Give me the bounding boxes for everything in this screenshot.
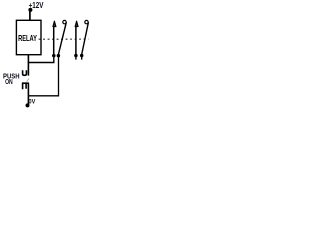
pole 1 fixed contact arrowhead <box>53 21 56 26</box>
wire relay coil bottom <box>27 55 29 63</box>
pole 2 fixed contact arrowhead <box>75 21 78 26</box>
relay contact pole 1 fixed terminal <box>53 27 55 55</box>
wire coil node to contact 1 common <box>28 56 53 63</box>
pole 2 moving arm <box>82 22 89 54</box>
push switch S1 lower contact <box>22 83 29 89</box>
wire node to push switch <box>27 63 29 76</box>
svg-text:RELAY: RELAY <box>18 33 37 43</box>
pole 2 terminal dot right <box>80 54 84 58</box>
svg-text:ON: ON <box>5 79 13 86</box>
push switch S1 upper contact <box>23 70 27 75</box>
mechanical linkage dashed line <box>39 38 89 40</box>
node +12V terminal dot <box>28 8 32 12</box>
wire push switch to 0V <box>27 83 29 105</box>
pole 2 terminal stub left <box>75 56 77 60</box>
pole 2 terminal stub right <box>81 56 83 60</box>
pole 2 terminal dot left <box>74 54 78 58</box>
pole 2 NO contact circle <box>85 20 88 23</box>
pole 1 NO contact circle <box>63 20 66 23</box>
node 0V terminal dot <box>26 103 30 107</box>
push switch plunger hint <box>27 79 29 82</box>
wire +12V to relay coil <box>29 10 31 21</box>
relay contact pole 2 fixed terminal <box>75 27 77 55</box>
pole 1 terminal dot right <box>57 54 61 58</box>
svg-text:0V: 0V <box>29 98 36 105</box>
wire pole 1 arm terminal to 0V rail <box>28 57 58 96</box>
pole 1 terminal dot left <box>52 54 56 58</box>
relay coil box U1 <box>16 20 41 54</box>
pole 1 moving arm <box>58 22 66 54</box>
